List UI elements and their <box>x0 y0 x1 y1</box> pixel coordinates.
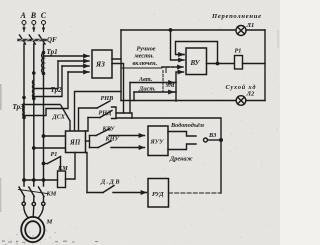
block RUD <box>148 179 169 208</box>
wire bracket mid output <box>116 113 132 118</box>
wire riser to YaZ input 3 <box>62 65 89 67</box>
left edge scan smudge <box>0 30 279 212</box>
wire KM coil to YaP <box>66 153 76 180</box>
relay coil P1 <box>235 56 243 70</box>
right bus <box>264 30 266 101</box>
contact drainage position <box>168 144 196 150</box>
block YaUU (level control unit) <box>148 126 168 156</box>
wire SM common to VU input 4 <box>176 72 184 101</box>
transformer Tp1 <box>42 51 45 74</box>
lamp L2 dry run <box>236 96 265 106</box>
bracket linking RNV RND <box>112 107 117 119</box>
contact DSKh dry-run sensor <box>25 105 70 132</box>
wire VU output to relay P1 <box>207 63 235 65</box>
wire YaZ output 2 down <box>112 64 124 114</box>
block VU (time unit) <box>186 48 207 75</box>
bottom caption remnants (scan cut-off) <box>2 241 98 243</box>
wire YaP down to D.DV <box>86 153 88 193</box>
wire phase C vertical <box>43 44 45 186</box>
phase terminal A <box>22 21 26 32</box>
wire overflow line to lamp L1 <box>121 29 236 31</box>
lamp L1 overflow <box>236 26 265 36</box>
wire Tp2 tap 2 <box>35 66 62 97</box>
wire P1 to right bus <box>243 63 266 65</box>
node B3 <box>204 138 223 142</box>
wire RUD output dashed <box>169 192 222 194</box>
block YaZ (protection unit) <box>92 50 112 78</box>
wire riser to YaZ input 2 <box>58 60 89 62</box>
wire YaP to level contacts <box>86 136 90 148</box>
junction <box>169 29 171 31</box>
junction <box>216 62 218 64</box>
contactor KM main contacts <box>19 187 48 206</box>
wire manual switching line to VU input 3 <box>121 67 183 73</box>
motor M <box>21 217 44 242</box>
wire phase B vertical <box>33 44 35 186</box>
block YaP (starter unit) <box>66 131 86 153</box>
wire phase C to YaP left input <box>42 135 65 137</box>
wire YaP input 3 from RNV <box>79 108 98 131</box>
transformer Tp3 <box>23 96 25 118</box>
wire dry-run line <box>121 100 236 102</box>
phase terminal C <box>42 21 46 32</box>
wire YaP input 2 from junction line <box>75 92 122 132</box>
phase terminal B <box>32 21 36 32</box>
wire Tp2 tap 1 <box>35 61 58 89</box>
contact P1 to KM coil <box>42 157 60 172</box>
wire Dist line <box>134 91 174 93</box>
switch SM selector linkage <box>162 71 164 92</box>
contact RNV <box>97 101 110 108</box>
wire Avt riser down <box>129 83 131 114</box>
wire phase A vertical <box>23 44 25 186</box>
circuit breaker QF <box>19 35 46 44</box>
contactor coil KM <box>58 171 66 188</box>
wires to motor <box>24 206 44 218</box>
contact KNU <box>90 141 145 148</box>
wire phase B to YaP left input <box>33 147 66 149</box>
wire phases to KM coil <box>23 179 58 181</box>
contact RND <box>86 111 113 132</box>
wire Avt line <box>130 82 174 84</box>
contact KVU <box>90 129 145 136</box>
wire riser to YaZ input 4 <box>68 71 89 73</box>
transformer Tp2 <box>33 72 35 100</box>
wire YaZ output up to overflow line <box>112 30 121 59</box>
wire VU feedback loop <box>176 42 218 64</box>
contact water-lift position <box>168 132 196 137</box>
wire Tp3 tap 2 <box>25 72 68 116</box>
wire Dist riser down <box>133 92 135 101</box>
wire long line to B3 bus <box>116 118 221 193</box>
contact D.DV <box>87 186 147 193</box>
wire riser manual line down to dry-run line <box>120 59 122 101</box>
wire from overflow line to VU input 2 <box>171 30 185 60</box>
wire Tp1 tap to YaZ input 1 <box>44 55 89 57</box>
